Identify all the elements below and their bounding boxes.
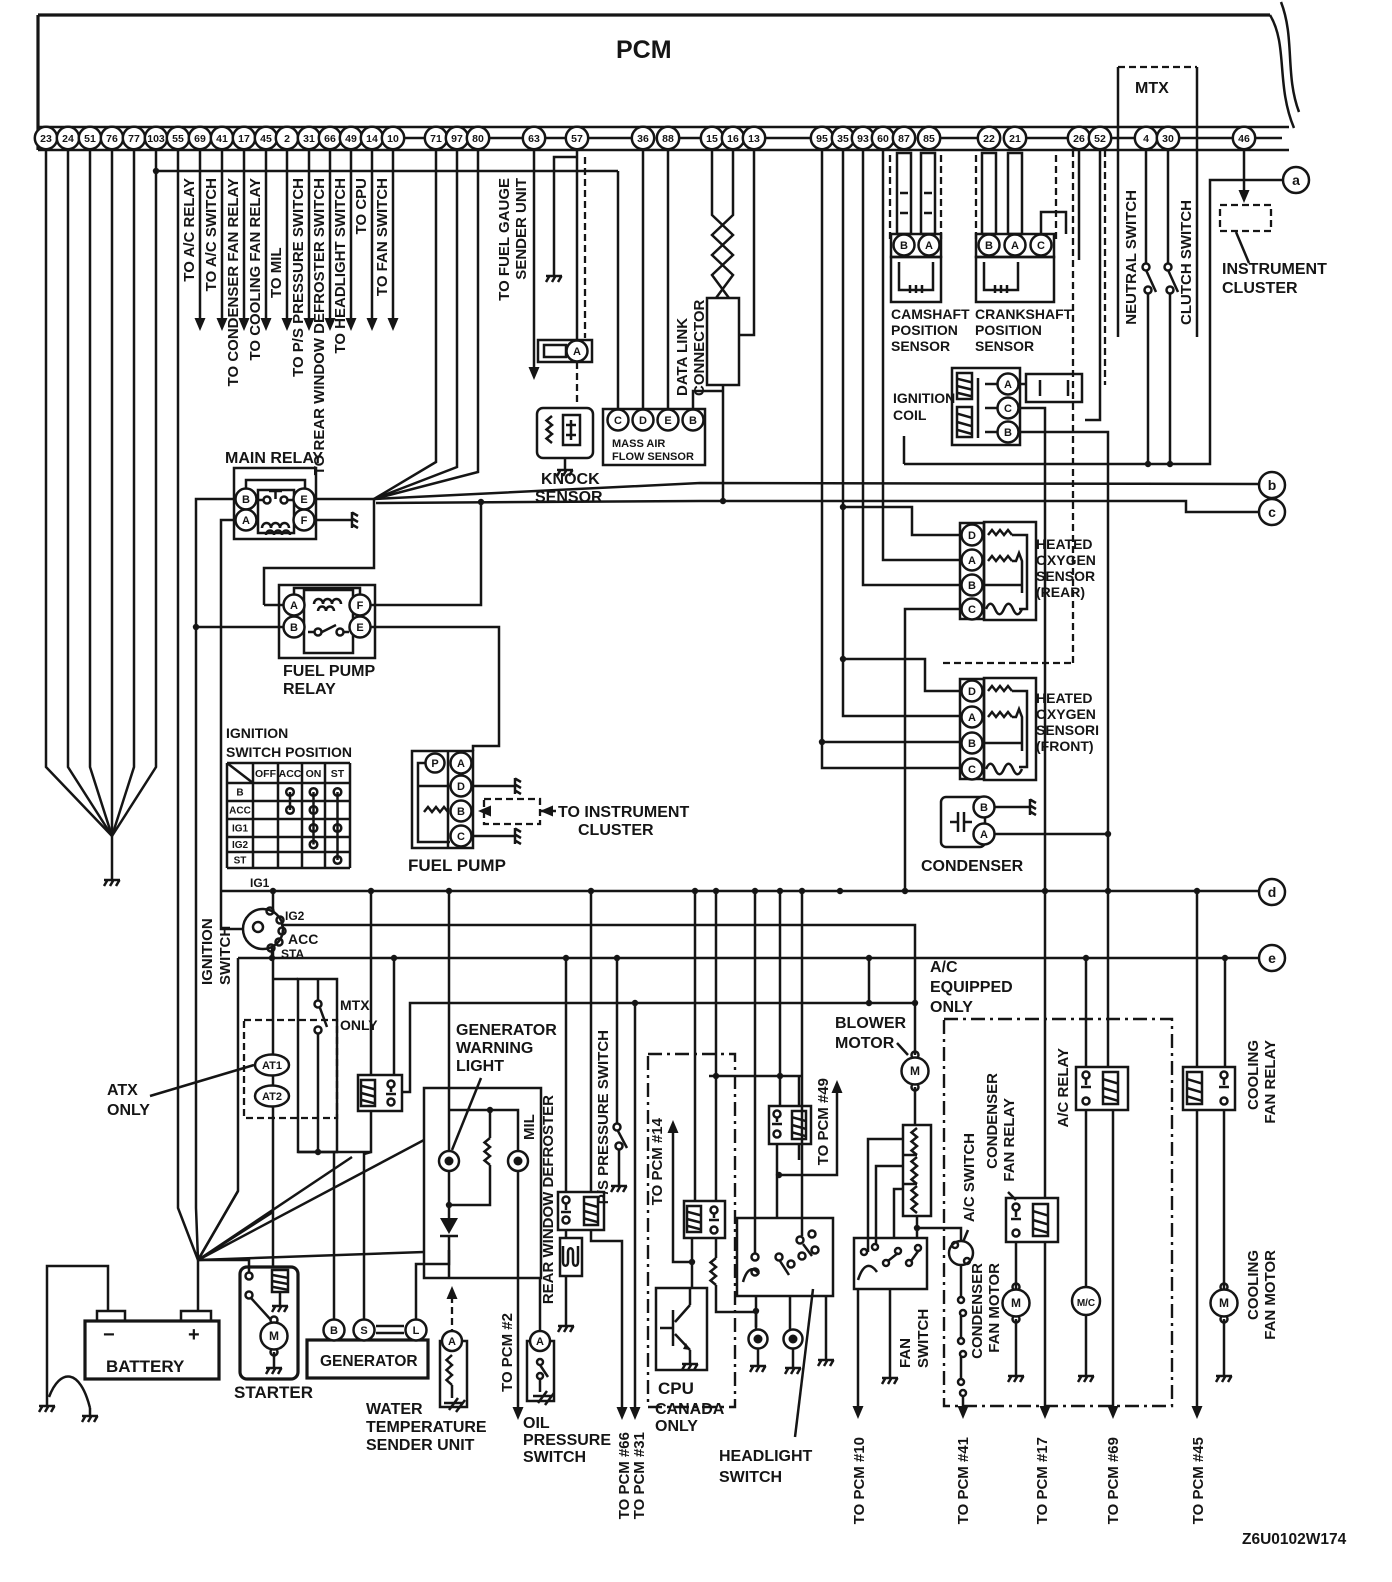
svg-text:C: C [1004, 403, 1012, 415]
svg-text:M/C: M/C [1077, 1298, 1095, 1309]
diode in GWL box [440, 1218, 458, 1234]
ignition switch [243, 909, 283, 949]
wire fuel pump relay F up to bus c [371, 502, 481, 605]
svg-text:MTX: MTX [340, 997, 370, 1013]
pin 36 [632, 127, 654, 149]
svg-text:103: 103 [147, 133, 165, 145]
svg-text:97: 97 [451, 133, 463, 145]
HO2S front pin D [962, 681, 983, 702]
crank sensor connector [976, 234, 1054, 257]
svg-text:WARNING: WARNING [456, 1040, 533, 1057]
svg-text:76: 76 [106, 133, 118, 145]
svg-text:C: C [457, 831, 465, 843]
svg-text:ON: ON [306, 768, 322, 780]
pin 85 [918, 127, 940, 149]
fuel pump relay pin E [350, 617, 371, 638]
svg-text:M: M [269, 1329, 279, 1343]
pin 69 [189, 127, 211, 149]
fuel pump relay pin A [284, 595, 305, 616]
svg-text:CPU: CPU [658, 1379, 694, 1398]
neutral switch [1145, 150, 1148, 263]
svg-text:TO PCM #17: TO PCM #17 [1034, 1437, 1051, 1524]
svg-text:BATTERY: BATTERY [106, 1357, 185, 1376]
HO2S rear pin C [962, 599, 983, 620]
pin 24 [57, 127, 79, 149]
svg-text:MTX: MTX [1135, 80, 1169, 97]
svg-text:M: M [1219, 1296, 1229, 1310]
svg-text:REAR WINDOW DEFROSTER: REAR WINDOW DEFROSTER [540, 1095, 557, 1304]
pin 31 [298, 127, 320, 149]
svg-text:SENSOR: SENSOR [535, 489, 603, 506]
svg-text:TO HEADLIGHT SWITCH: TO HEADLIGHT SWITCH [332, 178, 349, 354]
svg-text:Z6U0102W174: Z6U0102W174 [1242, 1531, 1347, 1548]
wire e-bus to blower feed [868, 958, 871, 1003]
svg-text:TO PCM #31: TO PCM #31 [631, 1432, 648, 1519]
heated oxygen sensor front [984, 678, 1036, 780]
camshaft sensor shield dashed [890, 155, 941, 240]
wires pcm49 relay [779, 891, 782, 1106]
svg-text:41: 41 [216, 133, 228, 145]
pin 66 [319, 127, 341, 149]
svg-text:E: E [664, 415, 671, 427]
wire canada relay to d bus [715, 891, 718, 1201]
svg-text:CONDENSER: CONDENSER [984, 1073, 1001, 1169]
node e [1259, 945, 1285, 971]
wire pin 36 to MAF D [642, 150, 645, 409]
svg-text:B: B [242, 494, 250, 506]
clutch switch [1167, 150, 1170, 263]
pin 13 [743, 127, 765, 149]
svg-text:A: A [968, 712, 976, 724]
generator pin S [354, 1320, 375, 1341]
ignition coil [952, 368, 1020, 445]
MAF pin D [633, 410, 654, 431]
svg-text:SENSOR: SENSOR [975, 338, 1034, 354]
pin 77 [123, 127, 145, 149]
pin 45 [255, 127, 277, 149]
pin 95 [811, 127, 833, 149]
condenser A wire [995, 833, 1108, 836]
svg-text:D: D [457, 781, 465, 793]
svg-text:66: 66 [324, 133, 336, 145]
svg-text:TO INSTRUMENT: TO INSTRUMENT [558, 804, 689, 821]
svg-text:CAMSHAFT: CAMSHAFT [891, 306, 970, 322]
crankshaft sensor body [976, 257, 1054, 302]
condenser fan motor [1013, 1284, 1020, 1291]
svg-text:C: C [968, 764, 976, 776]
svg-text:ACC: ACC [279, 768, 302, 780]
HO2S front pin C [962, 759, 983, 780]
PCM module box [38, 13, 1270, 16]
MAF pin E [658, 410, 679, 431]
fan switch ground [889, 1289, 892, 1370]
wires pins 95,35,93,60 to oxygen sensors [822, 150, 960, 768]
generator pin B [324, 1320, 345, 1341]
wire pin 97 to relay fan [374, 150, 457, 499]
wire MAF C up [617, 171, 620, 409]
svg-text:(FRONT): (FRONT) [1036, 738, 1094, 754]
svg-text:A: A [290, 600, 298, 612]
pin 80 [467, 127, 489, 149]
pin 15 [701, 127, 723, 149]
svg-text:B: B [689, 415, 697, 427]
svg-text:A: A [968, 555, 976, 567]
svg-text:60: 60 [877, 133, 889, 145]
mass air flow sensor [603, 409, 705, 465]
fuel pump relay pin F [350, 595, 371, 616]
A/C switch [914, 1225, 920, 1231]
resistor in GWL box [489, 1110, 492, 1185]
ignition coil pin C [998, 398, 1019, 419]
svg-text:D: D [639, 415, 647, 427]
fuel pump internal wiring [418, 763, 450, 842]
instrument cluster dashed box [1220, 205, 1271, 231]
svg-text:B: B [1004, 427, 1012, 439]
HO2S front pin A [962, 707, 983, 728]
pin band center dashes [405, 137, 1282, 140]
svg-text:M: M [910, 1064, 920, 1078]
svg-text:FLOW SENSOR: FLOW SENSOR [612, 451, 694, 463]
headlight switch pointer and label [795, 1289, 813, 1437]
svg-text:TO PCM #41: TO PCM #41 [955, 1437, 972, 1524]
svg-text:D: D [968, 530, 976, 542]
pin 21 [1004, 127, 1026, 149]
wire and arrow TO HEADLIGHT SWITCH [350, 150, 353, 318]
AT2 connector [255, 1086, 289, 1107]
wire pin 57 to knock sensor [576, 150, 579, 340]
svg-text:E: E [356, 622, 363, 634]
pin 51 [79, 127, 101, 149]
wire A/C relay to magnetic clutch [1085, 1110, 1088, 1287]
spark plug lead box [1026, 374, 1082, 402]
pcm49 relay [769, 1106, 811, 1144]
svg-text:ONLY: ONLY [930, 999, 973, 1016]
svg-text:CRANKSHAFT: CRANKSHAFT [975, 306, 1073, 322]
svg-text:CLUTCH SWITCH: CLUTCH SWITCH [1178, 200, 1195, 325]
MAF pin B [683, 410, 704, 431]
svg-text:TEMPERATURE: TEMPERATURE [366, 1419, 487, 1436]
wire ignition switch key line down [272, 948, 275, 1152]
wire ignition key line to starter [272, 1152, 275, 1267]
svg-text:ST: ST [331, 768, 345, 780]
crank sensor pin A [1005, 235, 1026, 256]
MIL lamp [508, 1151, 528, 1171]
wire and arrow TO CONDENSER FAN RELAY [243, 150, 246, 318]
pin 10 [382, 127, 404, 149]
wire e bus to A/C relay [1085, 958, 1088, 1067]
wire fuel pump relay E to fuel pump [371, 627, 499, 751]
fuel pump C ground [472, 835, 507, 838]
battery minus to chassis ground [47, 1266, 108, 1398]
svg-text:CONDENSER: CONDENSER [969, 1263, 986, 1359]
svg-text:SENSOR: SENSOR [1036, 568, 1095, 584]
svg-text:88: 88 [662, 133, 674, 145]
svg-text:E: E [300, 494, 307, 506]
wires into headlight switch [754, 891, 757, 1253]
svg-text:IG2: IG2 [232, 840, 249, 851]
ATX only dashed box [244, 1020, 337, 1118]
pin 55 [167, 127, 189, 149]
ground PCM common [104, 872, 120, 886]
svg-text:TO PCM #2: TO PCM #2 [499, 1313, 516, 1392]
main relay pin E [294, 489, 315, 510]
camshaft sensor body [891, 257, 941, 302]
pin 2 [276, 127, 298, 149]
svg-text:F: F [301, 515, 308, 527]
fuel pump pin C [451, 826, 472, 847]
wire coil B down right [1019, 432, 1108, 1067]
generator [307, 1340, 428, 1378]
pin 60 [872, 127, 894, 149]
svg-text:A: A [242, 515, 250, 527]
svg-text:(REAR): (REAR) [1036, 584, 1085, 600]
svg-text:S: S [360, 1325, 367, 1337]
wires resistor to fan switch [868, 1139, 903, 1252]
svg-text:c: c [1268, 504, 1276, 520]
svg-text:TO PCM #14: TO PCM #14 [649, 1117, 666, 1205]
MTX box [1118, 67, 1197, 337]
HO2S rear pin D [962, 525, 983, 546]
svg-text:IGNITION: IGNITION [199, 918, 216, 985]
pin 16 [722, 127, 744, 149]
wire to TO PCM #66 [591, 1230, 622, 1407]
A/C magnetic clutch M/C [1072, 1287, 1100, 1315]
svg-text:SWITCH POSITION: SWITCH POSITION [226, 744, 352, 760]
MAF pin C [608, 410, 629, 431]
svg-text:FAN MOTOR: FAN MOTOR [986, 1263, 1003, 1353]
wire fan down to fuel pump relay A branch [264, 500, 374, 605]
svg-text:TO PCM #45: TO PCM #45 [1190, 1437, 1207, 1524]
starter motor [271, 1317, 278, 1324]
fuel pump D ground [472, 785, 507, 788]
svg-text:SWITCH: SWITCH [217, 926, 234, 985]
svg-text:49: 49 [345, 133, 357, 145]
blower feed wire [402, 1003, 915, 1092]
svg-text:77: 77 [128, 133, 140, 145]
wire main relay B to battery feed [196, 499, 235, 1260]
bus line c [376, 501, 1259, 512]
svg-text:ONLY: ONLY [340, 1017, 378, 1033]
MTX only switch box [298, 979, 337, 1152]
svg-text:TO A/C SWITCH: TO A/C SWITCH [203, 178, 220, 291]
PCM torn right edge [1270, 15, 1294, 128]
pin 97 [446, 127, 468, 149]
bus line e (ignition STA) [238, 957, 1259, 960]
svg-text:SENSOR: SENSOR [891, 338, 950, 354]
dashed wire sender to gauge [451, 1296, 453, 1331]
wires pins into GWL box [448, 891, 451, 1151]
node d [1259, 879, 1285, 905]
svg-text:SWITCH: SWITCH [523, 1449, 586, 1466]
svg-text:SENSORI: SENSORI [1036, 722, 1099, 738]
defroster grid [560, 1238, 582, 1276]
wire d bus to condenser fan relay to TO PCM #17 [1044, 891, 1047, 1406]
svg-text:A: A [980, 829, 988, 841]
svg-text:TO FAN SWITCH: TO FAN SWITCH [374, 178, 391, 296]
svg-text:A: A [573, 346, 581, 358]
fuel pump connector box [412, 751, 473, 848]
svg-text:IG1: IG1 [250, 876, 270, 890]
battery [85, 1321, 219, 1379]
svg-text:INSTRUMENT: INSTRUMENT [1222, 261, 1327, 278]
headlight lamps [755, 1296, 758, 1329]
svg-text:TO PCM #69: TO PCM #69 [1105, 1437, 1122, 1524]
svg-text:SENDER UNIT: SENDER UNIT [366, 1437, 475, 1454]
wire TO PCM #10 [857, 1289, 860, 1406]
battery junction fan [197, 1260, 200, 1311]
svg-text:COOLING: COOLING [1245, 1040, 1262, 1110]
cooling fan relay [1183, 1067, 1235, 1110]
defroster relay [558, 1192, 604, 1230]
svg-text:ONLY: ONLY [655, 1418, 698, 1435]
svg-text:A: A [925, 240, 933, 252]
svg-text:POSITION: POSITION [891, 322, 958, 338]
svg-text:A/C SWITCH: A/C SWITCH [961, 1133, 978, 1222]
svg-text:IGNITION: IGNITION [893, 390, 955, 406]
wire coil C down right [1019, 408, 1045, 891]
svg-text:SWITCH: SWITCH [719, 1469, 782, 1486]
svg-text:80: 80 [472, 133, 484, 145]
wire generator B up [333, 1152, 336, 1319]
svg-text:HEATED: HEATED [1036, 690, 1093, 706]
svg-text:TO PCM #10: TO PCM #10 [851, 1437, 868, 1524]
wire pin 63 to fuel gauge sender [533, 150, 536, 367]
svg-text:HEATED: HEATED [1036, 536, 1093, 552]
svg-text:69: 69 [194, 133, 206, 145]
starter [240, 1267, 298, 1379]
svg-text:87: 87 [898, 133, 910, 145]
pin 14 [361, 127, 383, 149]
pin 26 [1068, 127, 1090, 149]
wire relay coil to d bus [298, 891, 371, 1152]
cooling fan motor [1221, 1284, 1228, 1291]
camshaft sensor connector [891, 234, 941, 257]
svg-text:PRESSURE: PRESSURE [523, 1432, 611, 1449]
data link connector twisted pair from pins 15,16 [712, 150, 733, 298]
condenser pin A [974, 824, 995, 845]
svg-text:16: 16 [727, 133, 739, 145]
fuel pump relay pin B [284, 617, 305, 638]
svg-text:SWITCH: SWITCH [915, 1309, 932, 1368]
wire and arrow TO A/C SWITCH [221, 150, 224, 318]
svg-text:EQUIPPED: EQUIPPED [930, 979, 1013, 996]
generator pin L [406, 1320, 427, 1341]
wires pins 23,24,51,76,77,103 converge to ground [46, 150, 112, 836]
wire pin 46 to instrument cluster [1243, 150, 1246, 192]
wire pin 52 [1085, 150, 1100, 420]
svg-text:COIL: COIL [893, 407, 927, 423]
generator warning light box [424, 1088, 541, 1278]
svg-text:FUEL PUMP: FUEL PUMP [283, 663, 375, 680]
ignition coil pin B [998, 422, 1019, 443]
svg-text:A: A [536, 1336, 544, 1348]
svg-text:C: C [968, 604, 976, 616]
svg-text:L: L [413, 1325, 420, 1337]
svg-text:52: 52 [1094, 133, 1106, 145]
wire ignition B from main relay A line [221, 891, 243, 929]
fuel pump pin A [451, 753, 472, 774]
svg-text:NEUTRAL SWITCH: NEUTRAL SWITCH [1123, 190, 1140, 325]
svg-text:TO P/S PRESSURE SWITCH: TO P/S PRESSURE SWITCH [290, 178, 307, 377]
node a wiring [904, 180, 1283, 464]
svg-text:85: 85 [923, 133, 935, 145]
svg-text:ATX: ATX [107, 1082, 138, 1099]
svg-text:A: A [457, 758, 465, 770]
svg-text:B: B [236, 788, 243, 799]
svg-text:B: B [980, 802, 988, 814]
svg-text:63: 63 [528, 133, 540, 145]
condenser pin B [974, 797, 995, 818]
svg-text:45: 45 [260, 133, 272, 145]
pin 71 [425, 127, 447, 149]
svg-text:SENDER UNIT: SENDER UNIT [513, 178, 530, 280]
wire cooling fan relay to motor [1223, 1110, 1226, 1289]
svg-text:FAN: FAN [897, 1338, 914, 1368]
svg-text:35: 35 [837, 133, 849, 145]
svg-text:23: 23 [40, 133, 52, 145]
svg-text:A: A [1011, 240, 1019, 252]
svg-text:14: 14 [366, 133, 378, 145]
svg-text:A: A [1004, 379, 1012, 391]
svg-text:17: 17 [238, 133, 250, 145]
svg-text:B: B [968, 580, 976, 592]
pin 87 [893, 127, 915, 149]
svg-text:STARTER: STARTER [234, 1383, 313, 1402]
pin 17 [233, 127, 255, 149]
wire condenser fan relay to motor [1015, 1242, 1018, 1289]
HO2S rear pin B [962, 575, 983, 596]
shield drain dashed wires [1073, 150, 1105, 663]
wire fuel pump relay A up [264, 604, 283, 607]
svg-text:A/C RELAY: A/C RELAY [1055, 1048, 1072, 1127]
svg-text:CONNECTOR: CONNECTOR [691, 299, 708, 396]
e bus left end down to battery junction [198, 958, 238, 1260]
svg-text:TO CONDENSER FAN RELAY: TO CONDENSER FAN RELAY [225, 178, 242, 386]
wire IG1 to bus d [272, 891, 275, 910]
rear O2 sensor ground wire [905, 609, 960, 891]
pin 88 [657, 127, 679, 149]
svg-text:FAN MOTOR: FAN MOTOR [1262, 1250, 1279, 1340]
condenser [941, 797, 985, 847]
pin 52 [1089, 127, 1111, 149]
svg-text:OXYGEN: OXYGEN [1036, 552, 1096, 568]
wire fuel pump relay B to battery line [196, 626, 283, 629]
node c [1259, 499, 1285, 525]
knock sensor cable connector [538, 340, 592, 362]
wire and arrow TO REAR WINDOW DEFROSTER SWITCH [329, 150, 332, 318]
wire pin 26 [1078, 150, 1081, 260]
pin 76 [101, 127, 123, 149]
svg-text:FUEL PUMP: FUEL PUMP [408, 856, 506, 875]
svg-text:B: B [330, 1325, 338, 1337]
svg-text:31: 31 [303, 133, 315, 145]
condenser B ground [995, 806, 1022, 809]
CPU transistor box [656, 1288, 707, 1370]
GWL internal bus [449, 1110, 518, 1151]
svg-text:FAN RELAY: FAN RELAY [1001, 1098, 1018, 1182]
svg-text:C: C [614, 415, 622, 427]
svg-text:OXYGEN: OXYGEN [1036, 706, 1096, 722]
svg-text:OIL: OIL [523, 1415, 550, 1432]
svg-text:TO REAR WINDOW DEFROSTER SWITC: TO REAR WINDOW DEFROSTER SWITCH [311, 178, 328, 475]
wire d bus to cooling fan relay coil [1196, 891, 1199, 1067]
svg-text:IG1: IG1 [232, 824, 249, 835]
camshaft position sensor cable [897, 153, 911, 234]
svg-text:F: F [357, 600, 364, 612]
svg-text:RELAY: RELAY [283, 681, 336, 698]
svg-text:MASS AIR: MASS AIR [612, 438, 665, 450]
knock sensor [537, 408, 593, 458]
